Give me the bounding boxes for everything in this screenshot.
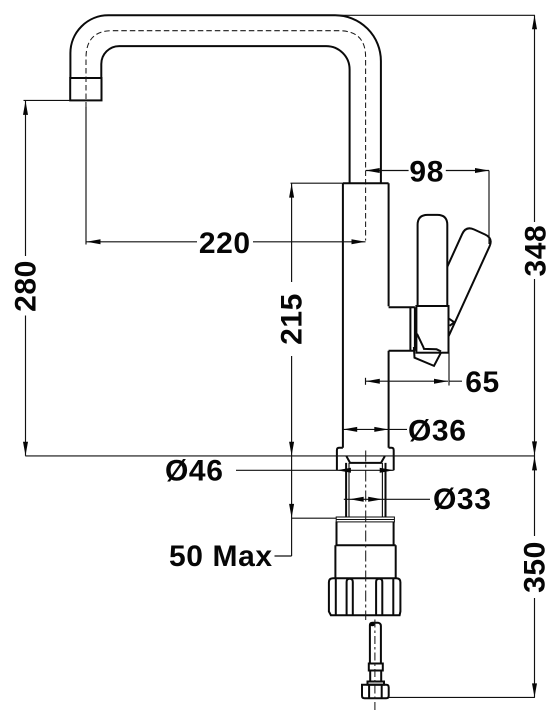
arrow 280 up xyxy=(23,101,28,115)
50 Max leader xyxy=(275,555,292,557)
dimension 348/350 line xyxy=(534,15,536,697)
arrow 65 right xyxy=(434,379,448,384)
dimension 65 extension line xyxy=(448,353,450,386)
dimension Ø46 leader and line xyxy=(236,469,394,471)
handle pivot box xyxy=(416,306,448,353)
dimension 65 axis tick xyxy=(365,378,367,385)
svg-text:280: 280 xyxy=(10,260,43,312)
handle slanted lever xyxy=(418,226,493,344)
body right side upper xyxy=(388,183,390,306)
svg-text:98: 98 xyxy=(409,156,444,189)
spout centerline (dashed) xyxy=(86,31,366,241)
stud lower rod xyxy=(370,671,381,682)
lever tail tip below box xyxy=(414,347,441,366)
dimension 98 right extension line xyxy=(488,171,490,245)
dimension 65 line xyxy=(366,380,463,382)
hex nut facet lines xyxy=(369,685,382,699)
arrow Ø33 right xyxy=(368,497,382,502)
knurled nut outline xyxy=(329,578,401,615)
knurl ridge pair 1 xyxy=(347,579,353,615)
arrow Ø46 right xyxy=(380,468,394,473)
svg-text:348: 348 xyxy=(519,225,552,277)
arrow 65 left xyxy=(366,379,380,384)
50 Max vertical line xyxy=(291,456,293,556)
arrow 98 right xyxy=(475,168,489,173)
shank outer walls xyxy=(346,463,385,517)
stud washer xyxy=(368,682,385,685)
svg-text:215: 215 xyxy=(276,293,309,345)
counter underside line (50 max) xyxy=(292,517,337,519)
arrow 348 up xyxy=(532,15,537,29)
spout aerator box xyxy=(70,78,101,100)
escutcheon step top xyxy=(389,307,415,351)
svg-text:350: 350 xyxy=(519,541,552,593)
dimension 220 left extension (spout centerline) xyxy=(85,107,87,245)
stud collar xyxy=(369,664,383,671)
svg-text:Ø33: Ø33 xyxy=(433,483,492,516)
arrow 215 up xyxy=(289,184,294,198)
stud top bead xyxy=(370,622,375,626)
svg-text:220: 220 xyxy=(199,227,251,260)
arrow Ø36 right xyxy=(374,427,388,432)
arrow 50max down xyxy=(289,504,294,518)
svg-text:Ø46: Ø46 xyxy=(165,455,224,488)
dimension 215 extension line xyxy=(291,182,343,184)
arrow 98 left xyxy=(366,168,380,173)
svg-text:50 Max: 50 Max xyxy=(169,540,273,573)
arrow 348 down xyxy=(532,441,537,455)
handle vertical lever xyxy=(418,215,448,307)
upper housing xyxy=(335,522,395,546)
arrow Ø33 left xyxy=(350,497,364,502)
arrow 220 left xyxy=(87,239,101,244)
arrow Ø46 left xyxy=(337,468,351,473)
arrow 220 right xyxy=(352,239,366,244)
base ledge right xyxy=(389,448,394,471)
svg-text:Ø36: Ø36 xyxy=(408,414,467,447)
dimension Ø33 line xyxy=(344,498,430,500)
dimension 98 line xyxy=(366,170,489,172)
shank thread root lines xyxy=(349,463,382,517)
body left side xyxy=(342,183,344,448)
dimension Ø36 line xyxy=(343,428,407,430)
arrow 215 down xyxy=(289,442,294,456)
dimension 215 line xyxy=(291,183,293,456)
dimension 280 extension line at spout xyxy=(24,99,71,101)
lower housing xyxy=(335,545,395,578)
washer band xyxy=(336,517,394,522)
spout tube outer contour xyxy=(70,15,381,183)
body right side lower xyxy=(388,351,390,448)
base ledge left xyxy=(337,448,343,471)
dimension 348 extension line (top) xyxy=(335,14,535,16)
lever tail wedge right of box xyxy=(448,318,454,326)
escutcheon step bottom xyxy=(389,350,415,352)
deck line xyxy=(25,455,535,457)
svg-text:65: 65 xyxy=(465,366,500,399)
arrow 280 down xyxy=(23,442,28,456)
under-deck chamfer trapezoid xyxy=(346,456,384,463)
body top line xyxy=(343,182,389,184)
knurl ridge pair 2 xyxy=(376,579,382,615)
dimension 350 extension line (bottom) xyxy=(389,696,535,698)
arrow 350 down xyxy=(532,683,537,697)
arrow Ø36 left xyxy=(343,427,357,432)
threaded stud rod xyxy=(370,623,381,664)
knurl ridge single lines xyxy=(336,579,394,615)
arrow 350 up xyxy=(532,456,537,470)
spout tube inner contour xyxy=(101,46,349,183)
dimension 280 line xyxy=(25,101,27,456)
stud centerline xyxy=(374,620,376,711)
dimension 220 line xyxy=(87,241,366,243)
main axis centerline xyxy=(365,451,367,621)
hex nut xyxy=(362,685,389,699)
lever tip lines inside box xyxy=(417,334,441,352)
